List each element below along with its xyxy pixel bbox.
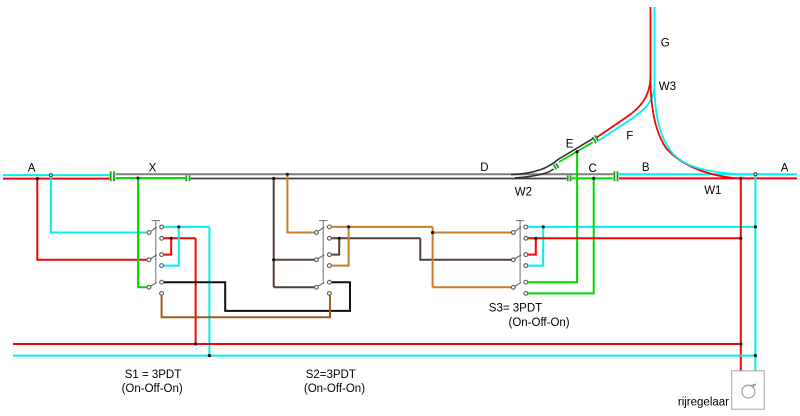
svg-text:X: X [149, 162, 157, 174]
node red bus right [739, 342, 742, 345]
rail section X bottom (green) [116, 177, 186, 179]
S2 actuator bar [319, 221, 327, 283]
turnout W2 lower branch rail (black) [515, 169, 554, 178]
node S2 orange tee [347, 225, 350, 228]
svg-text:W1: W1 [704, 185, 721, 197]
switch S3 [515, 221, 525, 287]
S2 common contacts [315, 231, 319, 235]
insulated gap E/F (both branch rails) [593, 135, 599, 143]
node red rail A-left [36, 177, 39, 180]
svg-text:F: F [626, 130, 633, 142]
node S3 cyan wire at feeder [754, 225, 757, 228]
insulated gap X/D (bottom rail) [186, 176, 189, 182]
node red bus left [194, 342, 197, 345]
node S3 cyan tee [542, 225, 545, 228]
svg-text:C: C [589, 163, 597, 175]
svg-text:A: A [28, 162, 36, 174]
wire S3 throw1-throw4 + to cyan feeder B (cyan) [528, 227, 755, 266]
S1 throw contacts [160, 225, 164, 229]
rail section E lower (green) [559, 142, 593, 162]
rail section A-left bottom (red) [3, 178, 110, 180]
insulated gap W2/E (lower branch rail) [554, 163, 559, 169]
turnout W3/W1 curve outer (cyan) [655, 85, 739, 174]
node orange rail D top [286, 173, 289, 176]
svg-text:(On-Off-On): (On-Off-On) [122, 383, 183, 395]
feeder wire D bottom rail dark brown (to S2 common2,3) [274, 179, 315, 288]
red bus from rijregelaar [13, 343, 741, 345]
rail section D bottom (dark) [191, 178, 567, 180]
wire S3 throw2-throw3 + to red feeder B (red) [528, 238, 741, 254]
svg-text:D: D [480, 162, 488, 174]
rijregelaar knob pointer [750, 384, 756, 387]
svg-text:rijregelaar: rijregelaar [678, 397, 729, 409]
rail section G right (cyan) [654, 7, 656, 85]
feeder wire A-left red (rail to S1 common2) [37, 179, 147, 260]
switch S1 [150, 221, 160, 287]
node S1 cyan tee [177, 225, 180, 228]
node S2 dark brown tee [338, 237, 341, 240]
wire S1 throw5 to S2 throw5 (black) [164, 282, 350, 311]
cyan bus from rijregelaar [13, 355, 755, 357]
svg-text:W3: W3 [659, 81, 676, 93]
S3 pole contacts (diagonals) [515, 227, 522, 286]
wire S1 throw6 to S2 throw6 (brown) [162, 296, 330, 318]
open terminal cyan B [754, 173, 757, 176]
S1 actuator bar [152, 221, 160, 283]
insulated gap C/B (both rails) [614, 171, 617, 181]
svg-text:E: E [566, 139, 574, 151]
S2 pole contacts (diagonals) [318, 227, 325, 286]
feeder wire B red (rail to bus and rijregelaar) [740, 178, 742, 370]
S1 common contacts [147, 231, 151, 235]
wire S2 throw1-throw4 to S3 common1,3 (orange) [332, 227, 512, 287]
rail section C bottom (green) [572, 177, 613, 179]
node S3 red tee [534, 237, 537, 240]
node cyan bus left [208, 354, 211, 357]
rijregelaar box [732, 371, 765, 409]
svg-text:W2: W2 [515, 187, 532, 199]
node S3 red wire at feeder [739, 237, 742, 240]
rail section F upper (red) [597, 76, 651, 137]
svg-text:S3= 3PDT: S3= 3PDT [489, 303, 542, 315]
wire S1 throw2-throw3 + red bus drop [164, 238, 196, 344]
S3 common contacts [511, 231, 515, 235]
insulated gap A/X (both rails) [111, 171, 114, 181]
node green rail C [592, 177, 595, 180]
feeder wire B cyan (rail to bus and rijregelaar) [754, 174, 756, 371]
S2 throw contacts [328, 225, 332, 229]
node red rail B [739, 177, 742, 180]
S3 throw contacts [524, 225, 528, 229]
switch S2 [318, 221, 328, 287]
node green rail E [576, 150, 579, 153]
wire S3 throw5 to E feeder (green) [528, 152, 577, 283]
svg-text:S1 = 3PDT: S1 = 3PDT [125, 369, 182, 381]
node cyan bus right [754, 354, 757, 357]
S1 pole contacts (diagonals) [150, 227, 157, 286]
svg-text:B: B [642, 162, 650, 174]
node green rail X [137, 177, 140, 180]
wire S2 throw2-throw3 to S3 common2 (dark brown) [332, 238, 512, 259]
svg-text:A: A [781, 162, 789, 174]
node S1 red tee [170, 237, 173, 240]
node dark brown rail D bottom [272, 177, 275, 180]
svg-text:(On-Off-On): (On-Off-On) [304, 383, 365, 395]
rail top D (gray) [116, 173, 614, 175]
S3 actuator bar [516, 221, 524, 283]
feeder wire D top rail orange (to S2 common1) [287, 174, 314, 232]
rail section G left (red) [650, 7, 652, 78]
feeder wire X green (rail to S1 common3) [138, 178, 147, 287]
node orange to S3 common1 [431, 231, 434, 234]
open terminal cyan A-left [49, 174, 52, 177]
rijregelaar knob [742, 385, 755, 398]
rail section F lower (cyan) [598, 84, 654, 141]
svg-text:(On-Off-On): (On-Off-On) [509, 317, 570, 329]
feeder wire A-left cyan (rail to S1 common1) [51, 175, 147, 232]
insulated gap D/C (bottom rail) [568, 176, 571, 182]
turnout W2 upper branch rail (black) [511, 139, 593, 175]
svg-text:S2=3PDT: S2=3PDT [306, 369, 356, 381]
turnout W3/W1 curve inner (red) [651, 78, 738, 178]
rail section B/A-right bottom (red) [619, 177, 797, 179]
rail section B/A-right top (cyan) [619, 173, 797, 175]
wire S1 throw1-throw4 + cyan bus drop [164, 227, 210, 356]
wire S3 throw6 to C feeder (green) [528, 178, 594, 293]
rail section A-left top (cyan) [3, 174, 110, 176]
node dark brown to S2 common2 [272, 258, 275, 261]
svg-text:G: G [661, 37, 670, 49]
